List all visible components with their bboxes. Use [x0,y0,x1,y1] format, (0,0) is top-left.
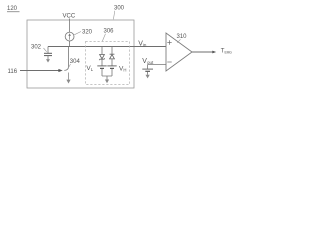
wire main rail to op-amp + input [48,46,166,48]
minus input glyph [167,61,171,63]
battery V_out [142,69,153,75]
dashed box 306 [86,42,130,85]
current source 320 [65,32,74,41]
plus input glyph [167,40,171,44]
wire node to electrode (vertical with hook) [64,47,68,71]
svg-text:310: 310 [177,34,188,40]
output arrowhead [212,51,216,54]
output wire [192,51,213,53]
svg-text:302: 302 [31,45,42,51]
svg-text:120: 120 [7,6,18,12]
wire VCC to current source [69,19,71,33]
svg-text:116: 116 [8,69,18,75]
leader 300 [113,11,114,19]
leader 306 [102,34,105,41]
battery V_L [97,66,106,76]
arrowhead 116 input [58,69,62,72]
svg-text:300: 300 [114,6,125,12]
wire current source to main rail [69,41,71,47]
leader 302 [44,48,47,52]
op-amp 310 [166,33,192,71]
leader 310 [177,39,180,43]
diode D2 (right branch) [110,47,115,66]
svg-text:306: 306 [104,29,115,35]
svg-text:304: 304 [70,59,81,65]
wire V_out to minus input [148,65,166,69]
ground arrow V_out [146,75,150,79]
battery V_H [107,66,116,76]
svg-text:320: 320 [82,30,93,36]
ground arrow under capacitor 302 [46,59,50,62]
svg-text:VCC: VCC [63,14,76,20]
ground arrow 304 [66,73,70,84]
capacitor 302 [44,47,52,60]
wire bottom rail of clamp [102,76,112,80]
ground arrow clamp [105,80,109,84]
node 120 label [7,6,20,12]
leader 320 [74,32,81,35]
wire 116 input [20,70,59,72]
box 300 (amplifier input circuit outline) [27,20,134,88]
leader 304 [69,64,71,67]
zener diode D1 (left branch) [99,47,105,66]
